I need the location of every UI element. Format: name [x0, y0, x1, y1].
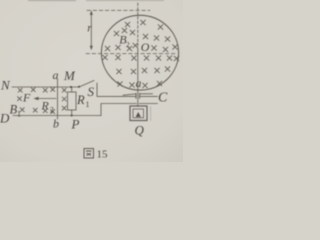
device Q (box with motor symbol) — [130, 106, 151, 121]
svg-text:N: N — [0, 78, 11, 93]
rotating conductor (dashed upper half through circle) — [137, 3, 139, 50]
sliding conductor rod ab — [57, 79, 59, 119]
wire segment right of rod to C — [140, 95, 158, 97]
svg-text:Q: Q — [135, 123, 145, 138]
magnetic field B1 x symbols — [17, 87, 66, 114]
rotating conductor lower half, from O down to device Q — [137, 50, 139, 107]
svg-text:1: 1 — [86, 100, 90, 109]
magnetic field B2 x symbols — [102, 20, 179, 88]
svg-text:1: 1 — [17, 110, 21, 119]
svg-text:F: F — [22, 91, 31, 105]
rail D (bottom horizontal rail) — [13, 115, 101, 117]
svg-text:M: M — [63, 68, 76, 83]
svg-text:C: C — [158, 91, 168, 106]
svg-text:15: 15 — [97, 149, 109, 161]
rail N (top horizontal rail) — [12, 86, 79, 88]
contact plate upper right at C — [140, 93, 153, 95]
switch pivot dot — [78, 86, 80, 88]
resistor R1 — [68, 87, 77, 116]
svg-text:a: a — [136, 78, 142, 90]
svg-text:R: R — [41, 99, 50, 113]
lower wire segment right of rod — [139, 103, 157, 105]
contact pad line left of rod — [123, 94, 136, 95]
svg-text:D: D — [0, 111, 10, 126]
brush contact ticks at rod — [136, 93, 140, 98]
circular field region B2 boundary — [101, 15, 178, 90]
svg-text:2: 2 — [126, 40, 130, 49]
radius dimension arrow r — [90, 10, 93, 50]
svg-text:2: 2 — [50, 106, 54, 115]
switch S blade — [79, 81, 94, 88]
svg-text:r: r — [87, 23, 92, 35]
svg-text:O: O — [141, 40, 150, 54]
svg-text:R: R — [76, 93, 85, 107]
svg-text:a: a — [53, 68, 59, 82]
caption glyph for Chinese character tu (figure) — [84, 149, 94, 159]
dashed construction line at top (tangent level) — [87, 9, 150, 11]
svg-text:P: P — [71, 117, 80, 132]
node P junction dot — [71, 115, 73, 117]
node M junction dot — [70, 86, 72, 88]
applied force arrow F — [34, 97, 57, 100]
wire from switch S down and right to contact C (upper) — [97, 83, 136, 96]
dashed construction line through center O — [86, 53, 177, 55]
svg-text:S: S — [88, 84, 95, 99]
svg-text:b: b — [53, 117, 59, 131]
wire from P up and right to contact C (lower) — [101, 104, 137, 116]
